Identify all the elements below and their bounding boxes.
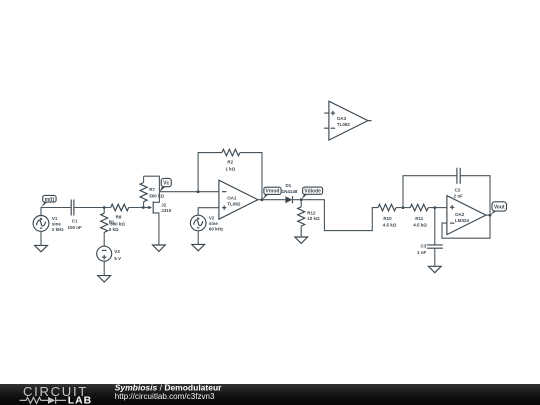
node D junction (OA1 output / feedback) — [261, 198, 264, 201]
label R1 5 kOhm — [109, 219, 119, 232]
node Vc flag — [159, 178, 171, 192]
ground (V3) — [98, 276, 111, 282]
svg-text:C2: C2 — [455, 187, 461, 192]
node C junction (feedback tap) — [197, 190, 200, 193]
node G junction (R11/C3/OA2 plus) — [433, 206, 436, 209]
ground (J2 source) — [153, 245, 166, 251]
svg-text:Symbiosis / Demodulateur: Symbiosis / Demodulateur — [115, 382, 222, 392]
svg-text:4.5 kΩ: 4.5 kΩ — [413, 222, 427, 227]
capacitor C3 — [427, 245, 443, 248]
capacitor C1 — [71, 200, 74, 216]
label OA1 TL082 — [227, 195, 241, 206]
node B junction (gate / R7 / R8) — [142, 206, 145, 209]
resistor R12 — [298, 200, 305, 237]
svg-text:V3: V3 — [114, 249, 120, 254]
svg-text:C1: C1 — [72, 219, 78, 224]
svg-text:V1: V1 — [52, 216, 58, 221]
wire gate — [143, 207, 148, 209]
svg-text:1 nF: 1 nF — [417, 250, 427, 255]
label C2 2 nF — [454, 187, 464, 198]
label R7 500 kOhm — [149, 187, 164, 199]
wire OA2 output — [486, 214, 490, 216]
svg-text:60 kHz: 60 kHz — [209, 227, 224, 232]
resistor R7 — [140, 176, 147, 207]
label V2 sine 60 kHz — [209, 216, 224, 232]
svg-text:m(t): m(t) — [45, 197, 55, 203]
wire OA2 feedback loop — [442, 215, 490, 238]
wire drain node to OA1 minus input — [159, 191, 219, 193]
svg-text:OA3: OA3 — [337, 116, 347, 121]
svg-text:R12: R12 — [307, 211, 316, 216]
label V1 sine 2 kHz — [52, 216, 65, 232]
wire feedback right vertical — [240, 153, 262, 200]
op-amp OA1 — [219, 180, 258, 219]
footer title Symbiosis / Demodulateur — [115, 382, 222, 392]
wire V2 to ground — [197, 231, 199, 245]
footer url — [115, 392, 215, 401]
svg-text:R10: R10 — [383, 216, 392, 221]
svg-text:LM324: LM324 — [455, 218, 470, 223]
svg-text:V2: V2 — [209, 216, 215, 221]
svg-text:500 kΩ: 500 kΩ — [110, 221, 125, 226]
ground (V2) — [192, 244, 205, 250]
wire V1 top to C1 — [41, 208, 71, 216]
node m(t) flag — [41, 195, 56, 207]
label R8 500 kOhm — [110, 214, 125, 226]
label C1 100 nF — [67, 219, 82, 231]
wire V1 to ground — [40, 231, 42, 245]
svg-text:TL082: TL082 — [337, 122, 351, 127]
svg-text:C3: C3 — [421, 244, 427, 249]
resistor R11 — [403, 204, 435, 211]
svg-text:2 kHz: 2 kHz — [52, 227, 65, 232]
node E junction (diode cathode) — [300, 198, 303, 201]
wire feedback left vertical — [198, 153, 222, 192]
label R10 4.5 kOhm — [383, 216, 397, 228]
label J2 J310 — [161, 203, 172, 214]
wire node G to OA2 plus input — [435, 207, 447, 209]
svg-text:OA1: OA1 — [227, 195, 237, 200]
svg-text:R2: R2 — [227, 160, 233, 165]
label R12 10 kOhm — [307, 211, 320, 221]
svg-text:Vdiode: Vdiode — [304, 189, 321, 195]
svg-text:Vmod: Vmod — [266, 189, 280, 195]
svg-text:10 kΩ: 10 kΩ — [307, 216, 320, 221]
op-amp OA2 — [447, 196, 486, 235]
wire C1 to node A — [74, 207, 104, 209]
resistor R10 — [378, 204, 403, 211]
wire C2 to output vertical — [460, 176, 490, 215]
wire C3 branch — [434, 208, 436, 245]
svg-text:J2: J2 — [161, 203, 167, 208]
label OA2 LM324 — [455, 212, 470, 223]
svg-text:R11: R11 — [415, 216, 424, 221]
node H junction (OA2 output) — [489, 214, 492, 217]
label D1 1N4148 — [282, 183, 298, 194]
svg-text:1 kΩ: 1 kΩ — [225, 166, 235, 171]
svg-text:J310: J310 — [161, 208, 172, 213]
svg-text:500 kΩ: 500 kΩ — [149, 194, 164, 199]
node Vout flag — [490, 202, 507, 215]
ground (C3) — [428, 266, 441, 272]
svg-text:4.5 kΩ: 4.5 kΩ — [383, 222, 397, 227]
svg-text:sine: sine — [209, 221, 219, 226]
label OA3 TL082 — [337, 116, 351, 127]
svg-text:OA2: OA2 — [455, 212, 465, 217]
svg-text:100 nF: 100 nF — [67, 225, 82, 230]
CircuitLab logo — [20, 384, 93, 405]
ground (V1) — [35, 245, 48, 251]
node F junction (R10/R11/C2) — [402, 206, 405, 209]
svg-text:sine: sine — [52, 222, 62, 227]
transistor J2 J310 — [148, 192, 159, 245]
svg-text:2 nF: 2 nF — [454, 194, 464, 199]
node A junction — [103, 206, 106, 209]
svg-text:1N4148: 1N4148 — [282, 189, 298, 194]
node Vmod flag — [262, 187, 281, 200]
label C3 1 nF — [417, 244, 427, 256]
wire OA1 plus input to V2 — [198, 208, 219, 216]
svg-text:http://circuitlab.com/c3fzvn3: http://circuitlab.com/c3fzvn3 — [115, 392, 215, 401]
svg-text:Vc: Vc — [163, 180, 169, 186]
capacitor C2 — [457, 168, 460, 184]
op-amp OA3 — [324, 101, 371, 140]
label R2 1 kOhm — [225, 160, 235, 172]
voltage source V1 — [33, 216, 49, 232]
diode D1 1N4148 — [285, 196, 301, 203]
wire R7 top loop to drain node — [144, 176, 160, 192]
svg-text:5 V: 5 V — [114, 256, 121, 261]
svg-text:TL082: TL082 — [227, 202, 241, 207]
ground (R12) — [295, 237, 308, 243]
resistor R2 — [222, 149, 240, 156]
svg-text:5 kΩ: 5 kΩ — [109, 227, 119, 232]
label V3 5 V — [114, 249, 121, 261]
wire OA1 output — [258, 199, 286, 201]
voltage source V3 — [97, 246, 112, 261]
svg-text:Vout: Vout — [494, 204, 505, 210]
voltage source V2 — [190, 215, 206, 231]
wire C3 to ground — [434, 248, 436, 266]
svg-text:R8: R8 — [116, 214, 122, 219]
label R11 4.5 kOhm — [413, 216, 427, 228]
resistor R8 — [104, 204, 143, 211]
FOOTER — [0, 384, 540, 405]
wire C2 branch left — [403, 176, 457, 208]
resistor R1 — [101, 208, 108, 247]
svg-text:R7: R7 — [149, 187, 155, 192]
node Vdiode flag — [301, 187, 322, 200]
wire bridge to R10 — [301, 200, 378, 231]
wire V3 to ground — [103, 261, 105, 275]
svg-text:D1: D1 — [286, 183, 292, 188]
svg-text:LAB: LAB — [68, 396, 92, 405]
